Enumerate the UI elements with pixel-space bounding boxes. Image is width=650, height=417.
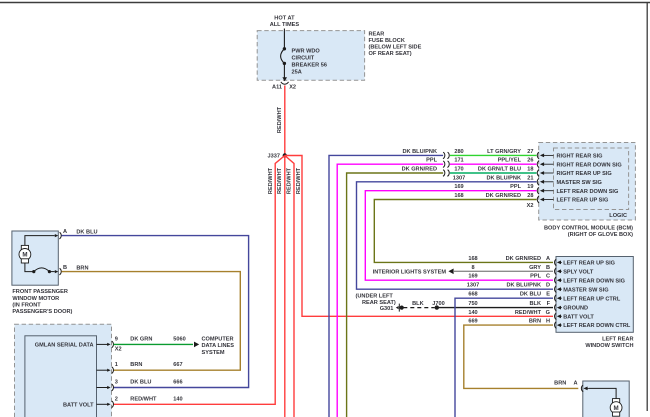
- svg-text:A: A: [546, 256, 550, 262]
- svg-text:GMLAN SERIAL DATA: GMLAN SERIAL DATA: [35, 343, 94, 349]
- left rear window switch box: [556, 257, 633, 333]
- svg-text:DK BLU/PNK: DK BLU/PNK: [403, 149, 438, 155]
- wire 280 LT GRN/GRY to BCM pin 27: [450, 149, 537, 156]
- svg-text:PPL: PPL: [510, 184, 521, 190]
- BCM pin 27 RIGHT REAR SIG: [527, 149, 602, 160]
- svg-text:LT GRN/GRY: LT GRN/GRY: [487, 149, 521, 155]
- svg-text:X2: X2: [527, 203, 534, 209]
- circuit breaker 56 (PWR WDO 25A): [281, 47, 287, 81]
- label: BODY CONTROL MODULE (BCM) (RIGHT OF GLOVE BOX): [544, 226, 633, 239]
- svg-text:18: 18: [527, 167, 533, 173]
- ground G301 (UNDER LEFT REAR SEAT): [356, 294, 404, 313]
- GMLAN box pin 2: [97, 396, 118, 407]
- BCM pin 21 MASTER SW SIG: [527, 175, 602, 186]
- svg-text:RED/WHT: RED/WHT: [277, 167, 283, 194]
- svg-text:28: 28: [527, 193, 533, 199]
- svg-text:WINDOW MOTOR: WINDOW MOTOR: [12, 296, 59, 302]
- motor M (front passenger window motor): [19, 245, 31, 263]
- front passenger window switch inner box: [25, 336, 97, 417]
- motor M (left rear window motor): [610, 399, 622, 417]
- svg-text:J700: J700: [432, 301, 444, 307]
- wire 168 DK GRN/RED BCM pin 28 to switch pin A: [374, 193, 553, 262]
- svg-text:SPLY VOLT: SPLY VOLT: [563, 269, 594, 275]
- wire RED/WHT (ckt 140) J337 to GMLAN box pin 2: [114, 156, 285, 405]
- wire 669 BRN switch pin H to left rear window motor pin A: [464, 319, 579, 389]
- body control module (BCM) outer box: [539, 143, 636, 221]
- wire RED/WHT (ckt 140) J337 to left rear window switch pin G: [285, 156, 553, 317]
- BCM pin 18 RIGHT REAR UP SIG: [527, 167, 611, 178]
- front passenger window motor box: [12, 231, 58, 285]
- switch pin B SPLY VOLT: [546, 265, 594, 276]
- svg-text:PPL: PPL: [530, 274, 541, 280]
- svg-text:X2: X2: [289, 85, 296, 91]
- svg-text:ALL TIMES: ALL TIMES: [270, 22, 300, 28]
- svg-text:GRY: GRY: [529, 265, 541, 271]
- svg-text:BODY CONTROL MODULE (BCM): BODY CONTROL MODULE (BCM): [544, 226, 633, 232]
- switch pin H LEFT REAR DOWN CTRL: [546, 319, 631, 330]
- wire: feed from HOT AT ALL TIMES into fuse block: [283, 29, 285, 49]
- switch pin C LEFT REAR DOWN SIG: [546, 274, 625, 285]
- svg-text:INTERIOR LIGHTS SYSTEM: INTERIOR LIGHTS SYSTEM: [373, 269, 447, 275]
- svg-text:PPL/YEL: PPL/YEL: [498, 158, 522, 164]
- svg-text:M: M: [22, 252, 27, 259]
- svg-text:BRN: BRN: [130, 362, 142, 368]
- svg-text:8: 8: [471, 265, 474, 271]
- svg-text:RED/WHT: RED/WHT: [287, 167, 293, 194]
- left rear window motor box: [583, 381, 629, 417]
- svg-text:MASTER SW SIG: MASTER SW SIG: [563, 287, 608, 293]
- svg-text:D: D: [546, 283, 550, 289]
- svg-text:A: A: [573, 381, 577, 387]
- svg-text:LOGIC: LOGIC: [609, 213, 627, 219]
- switch pin F GROUND: [547, 301, 588, 312]
- svg-text:171: 171: [454, 158, 463, 164]
- label: wire 1307 DK BLU/PNK at switch pin D: [467, 283, 541, 289]
- svg-text:G301: G301: [380, 306, 394, 312]
- svg-text:LEFT REAR DOWN SIG: LEFT REAR DOWN SIG: [563, 278, 625, 284]
- svg-text:DK BLU: DK BLU: [520, 292, 541, 298]
- svg-text:RIGHT REAR DOWN SIG: RIGHT REAR DOWN SIG: [557, 162, 622, 168]
- BCM pin 28 LEFT REAR UP SIG: [527, 193, 608, 204]
- label: wire 666 DK BLU: [130, 380, 182, 386]
- svg-text:280: 280: [454, 149, 463, 155]
- svg-text:BRN: BRN: [529, 319, 541, 325]
- wire 668 DK BLU switch pin E down to bottom: [455, 292, 553, 417]
- svg-text:(UNDER LEFT: (UNDER LEFT: [356, 294, 394, 300]
- junction J700: [432, 301, 444, 310]
- inline connector on ckt 170: [443, 170, 449, 177]
- svg-text:RIGHT REAR UP SIG: RIGHT REAR UP SIG: [557, 171, 612, 177]
- svg-text:(RIGHT OF GLOVE BOX): (RIGHT OF GLOVE BOX): [568, 232, 633, 238]
- switch pin D MASTER SW SIG: [546, 283, 609, 294]
- switch pin E LEFT REAR UP CTRL: [546, 292, 621, 303]
- label: wire 169 PPL at switch pin C: [468, 274, 541, 280]
- svg-text:LEFT REAR UP SIG: LEFT REAR UP SIG: [563, 261, 615, 267]
- left rear motor pin A: [554, 381, 589, 392]
- wire RED/WHT J337 down branch 3 (to bottom): [285, 156, 294, 417]
- svg-text:LEFT REAR DOWN CTRL: LEFT REAR DOWN CTRL: [563, 323, 631, 329]
- label: wire 140 RED/WHT: [130, 396, 182, 402]
- GMLAN box pin 9: [97, 336, 118, 347]
- label: PWR WDO CIRCUIT BREAKER 56 25A: [292, 48, 327, 75]
- wire 169 PPL BCM pin 19 to switch pin C: [365, 184, 553, 280]
- svg-text:CIRCUIT: CIRCUIT: [292, 55, 315, 61]
- svg-text:26: 26: [527, 158, 533, 164]
- svg-text:BREAKER 56: BREAKER 56: [292, 62, 327, 68]
- svg-text:B: B: [63, 265, 67, 271]
- svg-text:RIGHT REAR SIG: RIGHT REAR SIG: [557, 154, 603, 160]
- wire DK BLU motor pin A to GMLAN box pin 3 (ckt 666): [62, 230, 249, 388]
- junction J337: [268, 153, 287, 159]
- label: FRONT PASSENGER WINDOW MOTOR (IN FRONT PASSENGER'S DOOR): [12, 289, 72, 315]
- svg-text:BATT VOLT: BATT VOLT: [63, 402, 94, 408]
- inline connector on ckt 171: [443, 161, 449, 168]
- svg-text:M: M: [614, 405, 619, 412]
- svg-text:BLK: BLK: [412, 301, 424, 307]
- rear fuse block box: [257, 31, 364, 81]
- svg-text:DK GRN/LT BLU: DK GRN/LT BLU: [478, 167, 521, 173]
- svg-text:LEFT REAR DOWN SIG: LEFT REAR DOWN SIG: [557, 189, 619, 195]
- svg-text:750: 750: [468, 301, 477, 307]
- svg-text:25A: 25A: [292, 69, 302, 75]
- GMLAN box pin 1: [97, 362, 118, 373]
- svg-text:DK GRN/RED: DK GRN/RED: [506, 256, 541, 262]
- svg-text:FUSE BLOCK: FUSE BLOCK: [369, 38, 405, 44]
- svg-text:669: 669: [468, 319, 477, 325]
- svg-text:F: F: [547, 301, 551, 307]
- svg-text:27: 27: [527, 149, 533, 155]
- svg-text:1307: 1307: [453, 175, 465, 181]
- wire BRN motor pin B to GMLAN box pin 1 (ckt 667): [62, 266, 241, 371]
- svg-text:E: E: [546, 292, 550, 298]
- wire BLK G301 to junction J700 (dashed): [403, 301, 434, 308]
- svg-text:9: 9: [115, 336, 118, 342]
- svg-text:A: A: [63, 229, 67, 235]
- label: wire 140 RED/WHT at switch pin G: [468, 310, 541, 316]
- svg-text:G: G: [546, 310, 550, 316]
- svg-text:169: 169: [454, 184, 463, 190]
- svg-text:J337: J337: [268, 154, 280, 160]
- wire 8 GRY from INTERIOR LIGHTS SYSTEM to switch pin B: [373, 265, 553, 276]
- svg-text:GROUND: GROUND: [563, 306, 588, 312]
- svg-text:DK BLU: DK BLU: [130, 380, 151, 386]
- svg-text:169: 169: [468, 274, 477, 280]
- wire: left rear motor internal from pin A to motor: [589, 388, 616, 398]
- GMLAN box pin 3: [97, 380, 118, 391]
- motor pin A: [55, 229, 67, 239]
- svg-text:668: 668: [468, 292, 477, 298]
- svg-text:2: 2: [115, 396, 118, 402]
- svg-text:H: H: [546, 319, 550, 325]
- svg-text:FRONT PASSENGER: FRONT PASSENGER: [12, 289, 68, 295]
- svg-text:DK BLU/PNK: DK BLU/PNK: [507, 283, 542, 289]
- svg-text:COMPUTER: COMPUTER: [202, 337, 234, 343]
- svg-text:21: 21: [527, 175, 533, 181]
- svg-text:MASTER SW SIG: MASTER SW SIG: [557, 180, 602, 186]
- svg-text:1: 1: [115, 362, 118, 368]
- svg-text:RED/WHT: RED/WHT: [268, 167, 274, 194]
- label: COMPUTER DATA LINES SYSTEM: [202, 337, 235, 356]
- inline connector on ckt 280: [443, 152, 449, 159]
- wire 170 DK GRN/RED (left segment, to bottom): [347, 167, 444, 417]
- label: wire 168 DK GRN/RED at switch pin A: [468, 256, 541, 262]
- svg-text:BRN: BRN: [76, 266, 88, 272]
- svg-text:LEFT REAR UP SIG: LEFT REAR UP SIG: [557, 198, 609, 204]
- svg-text:PPL: PPL: [426, 158, 437, 164]
- svg-text:RED/WHT: RED/WHT: [130, 396, 157, 402]
- svg-text:DK BLU: DK BLU: [76, 230, 97, 236]
- svg-text:C: C: [546, 274, 550, 280]
- svg-text:X2: X2: [115, 347, 122, 353]
- svg-text:LEFT REAR UP CTRL: LEFT REAR UP CTRL: [563, 296, 621, 302]
- svg-text:WINDOW SWITCH: WINDOW SWITCH: [585, 343, 633, 349]
- wire RED/WHT from breaker output to junction J337: [277, 86, 285, 156]
- svg-text:OF REAR SEAT): OF REAR SEAT): [369, 51, 412, 57]
- svg-text:168: 168: [454, 193, 463, 199]
- svg-text:RED/WHT: RED/WHT: [515, 310, 542, 316]
- svg-text:DK BLU/PNK: DK BLU/PNK: [487, 175, 522, 181]
- connector pin A11 / X2 below fuse block: [272, 77, 296, 90]
- svg-text:DK GRN: DK GRN: [130, 336, 152, 342]
- svg-text:LEFT REAR: LEFT REAR: [602, 337, 633, 343]
- svg-text:1307: 1307: [467, 283, 479, 289]
- svg-text:PWR WDO: PWR WDO: [292, 48, 321, 54]
- svg-text:RED/WHT: RED/WHT: [296, 167, 302, 194]
- page border right: [646, 3, 648, 412]
- svg-text:3: 3: [115, 380, 118, 386]
- svg-text:REAR: REAR: [369, 31, 385, 37]
- wire: motor internal to pin A: [25, 236, 55, 246]
- wire 170 DK GRN/LT BLU to BCM pin 18: [450, 167, 537, 174]
- svg-text:140: 140: [173, 396, 182, 402]
- front passenger window switch outer box (dashed): [15, 324, 112, 417]
- svg-text:667: 667: [173, 362, 182, 368]
- label: wire 667 BRN: [130, 362, 182, 368]
- svg-text:170: 170: [454, 167, 463, 173]
- svg-text:5060: 5060: [173, 336, 185, 342]
- svg-text:DK GRN/RED: DK GRN/RED: [402, 167, 437, 173]
- label: REAR FUSE BLOCK (BELOW LEFT SIDE OF REAR SEAT): [369, 31, 422, 57]
- svg-text:DK GRN/RED: DK GRN/RED: [486, 193, 521, 199]
- svg-text:DATA LINES: DATA LINES: [202, 343, 235, 349]
- switch pin A LEFT REAR UP SIG: [546, 256, 615, 267]
- wire 5060 DK GRN to COMPUTER DATA LINES SYSTEM: [114, 336, 200, 347]
- wire 280 DK BLU/PNK (left segment, to bottom): [329, 149, 443, 417]
- wire: motor internal flexible link to pin B: [25, 263, 55, 273]
- wire 171 PPL (left segment, to bottom): [337, 158, 443, 417]
- svg-text:168: 168: [468, 256, 477, 262]
- label: LEFT REAR WINDOW SWITCH: [585, 337, 633, 350]
- wire 750 BLK J700 to switch pin F: [437, 301, 553, 308]
- switch pin G BATT VOLT: [546, 310, 595, 321]
- svg-text:BRN: BRN: [554, 381, 566, 387]
- svg-text:BATT VOLT: BATT VOLT: [563, 314, 594, 320]
- wire RED/WHT J337 straight down (branch to bottom): [277, 156, 285, 417]
- svg-text:(BELOW LEFT SIDE: (BELOW LEFT SIDE: [369, 45, 422, 51]
- svg-text:666: 666: [173, 380, 182, 386]
- svg-text:RED/WHT: RED/WHT: [277, 106, 283, 133]
- svg-text:(IN FRONT: (IN FRONT: [12, 302, 41, 308]
- motor pin B: [55, 265, 67, 275]
- wire 1307 DK BLU/PNK BCM pin 21 to switch pin D: [357, 175, 554, 289]
- svg-text:SYSTEM: SYSTEM: [202, 350, 225, 356]
- svg-text:BLK: BLK: [530, 301, 542, 307]
- node: HOT AT ALL TIMES: [270, 16, 300, 29]
- svg-text:PASSENGER'S DOOR): PASSENGER'S DOOR): [12, 309, 72, 315]
- wire 171 PPL/YEL to BCM pin 26: [450, 158, 537, 165]
- BCM pin 26 RIGHT REAR DOWN SIG: [527, 158, 622, 169]
- svg-text:A11: A11: [272, 85, 282, 91]
- svg-text:HOT AT: HOT AT: [274, 16, 295, 22]
- BCM pin 19 LEFT REAR DOWN SIG: [527, 184, 618, 195]
- svg-text:140: 140: [468, 310, 477, 316]
- svg-text:B: B: [546, 265, 550, 271]
- BCM logic inner box: [554, 148, 629, 219]
- svg-text:19: 19: [527, 184, 533, 190]
- page border top: [0, 2, 650, 4]
